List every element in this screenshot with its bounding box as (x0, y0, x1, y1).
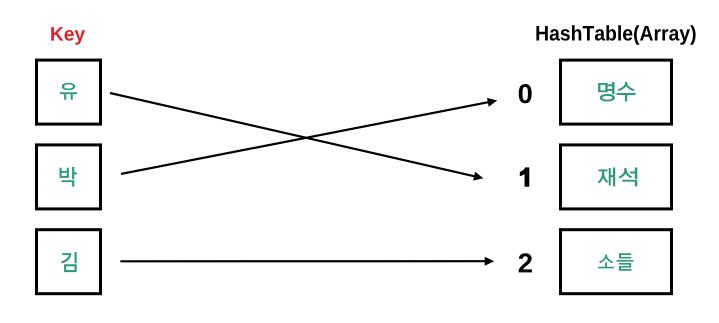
hashtable box slot2 (561, 230, 672, 294)
key box 박 (37, 145, 101, 209)
hangul text 재 (598, 167, 616, 186)
key box 김 (37, 230, 101, 294)
arrow key박 to slot0 (121, 102, 489, 174)
arrow key김 to slot2 (120, 260, 485, 262)
hangul text 수 (617, 82, 636, 102)
index 1 (520, 167, 530, 186)
hashtable box slot0 (561, 60, 672, 124)
hangul text 박 (60, 167, 77, 187)
hangul text 들 (616, 253, 633, 270)
index 0 (519, 84, 532, 103)
hangul text 명 (598, 82, 615, 102)
key box 유 (37, 60, 101, 124)
hangul text 김 (61, 252, 77, 272)
hangul text 유 (60, 83, 77, 100)
hangul text 소 (598, 254, 614, 268)
arrow key유 to slot1 (110, 93, 475, 176)
label Key (51, 27, 85, 45)
hashtable box slot1 (561, 145, 672, 209)
label HashTable(Array) (536, 25, 695, 45)
hangul text 석 (618, 167, 637, 186)
index 2 (519, 253, 532, 272)
